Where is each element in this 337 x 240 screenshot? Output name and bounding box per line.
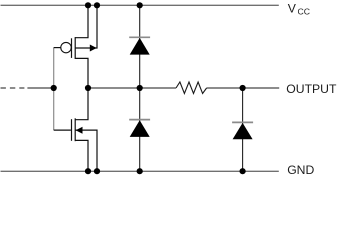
junction dot input/gate bus <box>51 85 57 91</box>
junction dot output/D3 <box>240 85 246 91</box>
diode D2 (GND to node clamp) <box>129 120 150 137</box>
transistor Q1 (P-channel MOSFET) <box>54 5 97 88</box>
Q2 bulk stub <box>75 130 97 171</box>
Q2 drain stub <box>75 88 88 120</box>
Q2 channel bar <box>74 118 76 141</box>
junction dot VCC/Q1 bulk <box>94 2 100 8</box>
wire: gate bus vertical <box>53 48 55 131</box>
Q1 channel bar <box>74 37 76 59</box>
junction dot GND/Q2 source <box>85 168 91 174</box>
Q2 source stub <box>75 140 88 171</box>
wire: dashed input lead <box>1 87 25 89</box>
wire: clamp diode column (node to GND) <box>139 88 141 171</box>
Q1 drain stub <box>75 58 88 88</box>
Q1 gate bar <box>71 38 73 58</box>
resistor R1 <box>176 82 207 94</box>
diode D1 (node to VCC clamp) <box>129 37 150 54</box>
wire: internal node row (drains to resistor) <box>88 87 176 89</box>
D2 cathode bar <box>129 119 150 121</box>
svg-text:GND: GND <box>287 163 314 176</box>
wire: output row right segment <box>207 87 280 89</box>
junction dot GND/Q2 bulk <box>94 168 100 174</box>
D3 cathode bar <box>232 121 253 123</box>
junction dot VCC/D1 <box>137 2 143 8</box>
Q1 source stub <box>75 5 88 37</box>
svg-text:OUTPUT: OUTPUT <box>286 82 337 96</box>
Q2 bulk arrowhead <box>76 127 83 134</box>
Q1 bulk stub <box>75 5 97 48</box>
junction dot GND/D2 <box>137 168 143 174</box>
transistor Q2 (N-channel MOSFET) <box>54 88 97 171</box>
diode D3 (GND to output clamp) <box>232 122 253 139</box>
power rail VCC <box>1 4 279 6</box>
D1 cathode bar <box>129 36 150 38</box>
D1 anode triangle <box>130 38 150 55</box>
Q2 gate bar <box>71 119 73 141</box>
D2 anode triangle <box>130 120 150 137</box>
Q1 bulk arrowhead <box>90 45 97 52</box>
ground rail GND <box>1 170 279 172</box>
D3 anode triangle <box>233 123 253 139</box>
Q1 gate lead <box>54 47 61 49</box>
wire: output clamp column <box>242 88 244 171</box>
junction dot node/drains <box>85 85 91 91</box>
junction dot GND/D3 <box>240 168 246 174</box>
Q2 gate lead <box>54 129 71 131</box>
Q1 gate bubble <box>61 42 71 52</box>
junction dot node/diode column <box>137 85 143 91</box>
junction dot VCC/Q1 source <box>85 2 91 8</box>
wire: input lead solid segment to gate bus <box>27 87 53 89</box>
wire: clamp diode column (VCC to node) <box>139 5 141 88</box>
